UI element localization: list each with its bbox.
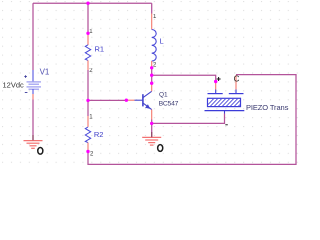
junction collector node to piezo (150, 74, 153, 77)
svg-text:Q1: Q1 (159, 91, 168, 98)
transistor Q1 (127, 84, 152, 120)
resistor R2 (85, 116, 90, 152)
piezo plus marker (217, 77, 221, 81)
junction Q1 collector pin (150, 82, 153, 85)
svg-text:L: L (160, 37, 164, 46)
wire emitter node to piezo minus (152, 114, 225, 124)
piezo minus marker (225, 124, 228, 126)
svg-text:R1: R1 (95, 44, 105, 53)
junction R2 pin 2 (86, 150, 89, 153)
wire node C right side (88, 75, 296, 165)
wire R1 to R2 through mid junction (87, 70, 89, 116)
wire collector node to piezo plus (152, 75, 216, 81)
wire left vertical to V1 (32, 3, 34, 70)
ground stem tip right (151, 132, 153, 137)
resistor R1 (85, 34, 90, 70)
junction R1 pin 1 (86, 32, 89, 35)
ground 0 left (24, 141, 43, 149)
source V1 (24, 70, 41, 100)
junction piezo plus pin (214, 80, 217, 83)
ground 0 right (142, 137, 161, 145)
ground stem tip left (32, 135, 34, 140)
piezo transducer (205, 75, 247, 125)
wire top bus to L (151, 3, 153, 13)
inductor L (152, 14, 157, 68)
svg-text:12Vdc: 12Vdc (3, 81, 25, 90)
wire emitter node to ground (151, 123, 153, 137)
wire Q1 emitter to ground node (151, 120, 153, 124)
junction top bus / R1 branch (86, 2, 89, 5)
wire L to Q1 collector (151, 68, 153, 83)
wire top junction to R1 (87, 3, 89, 34)
svg-text:V1: V1 (40, 68, 50, 77)
svg-text:C: C (234, 75, 240, 84)
svg-text:R2: R2 (94, 130, 104, 139)
wire V1 to ground (32, 100, 34, 141)
wire top bus (33, 2, 152, 4)
wire mid junction to Q1 base (88, 99, 126, 101)
junction L pin 2 (150, 66, 153, 69)
junction base node at R divider (86, 99, 89, 102)
svg-text:PIEZO Trans: PIEZO Trans (246, 103, 289, 112)
node label 0 left (38, 147, 43, 154)
junction Q1 base pin (125, 99, 128, 102)
svg-text:BC547: BC547 (159, 100, 179, 107)
junction emitter ground node (150, 122, 153, 125)
node label 0 right (158, 145, 163, 152)
